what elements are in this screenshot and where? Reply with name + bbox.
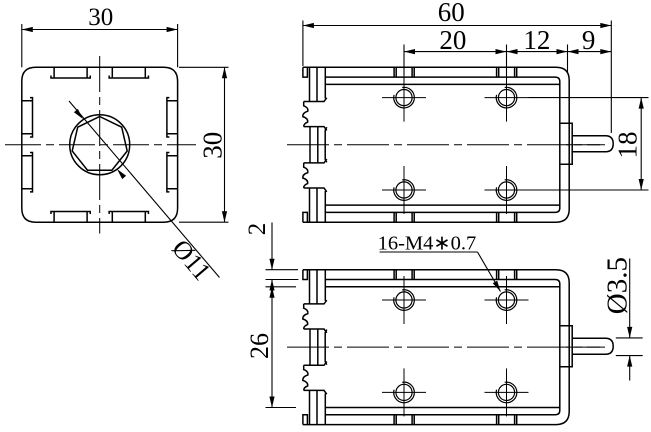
svg-text:9: 9 (582, 25, 596, 55)
svg-text:20: 20 (439, 25, 466, 55)
svg-text:30: 30 (198, 132, 228, 159)
svg-text:60: 60 (438, 0, 465, 27)
svg-text:Ø3.5: Ø3.5 (602, 257, 634, 314)
svg-text:18: 18 (613, 132, 643, 159)
svg-text:Ø11: Ø11 (166, 234, 216, 286)
svg-text:12: 12 (523, 25, 550, 55)
svg-text:16-M4∗0.7: 16-M4∗0.7 (378, 233, 477, 255)
svg-text:26: 26 (245, 333, 274, 359)
svg-text:30: 30 (88, 4, 113, 31)
svg-text:2: 2 (244, 223, 271, 236)
